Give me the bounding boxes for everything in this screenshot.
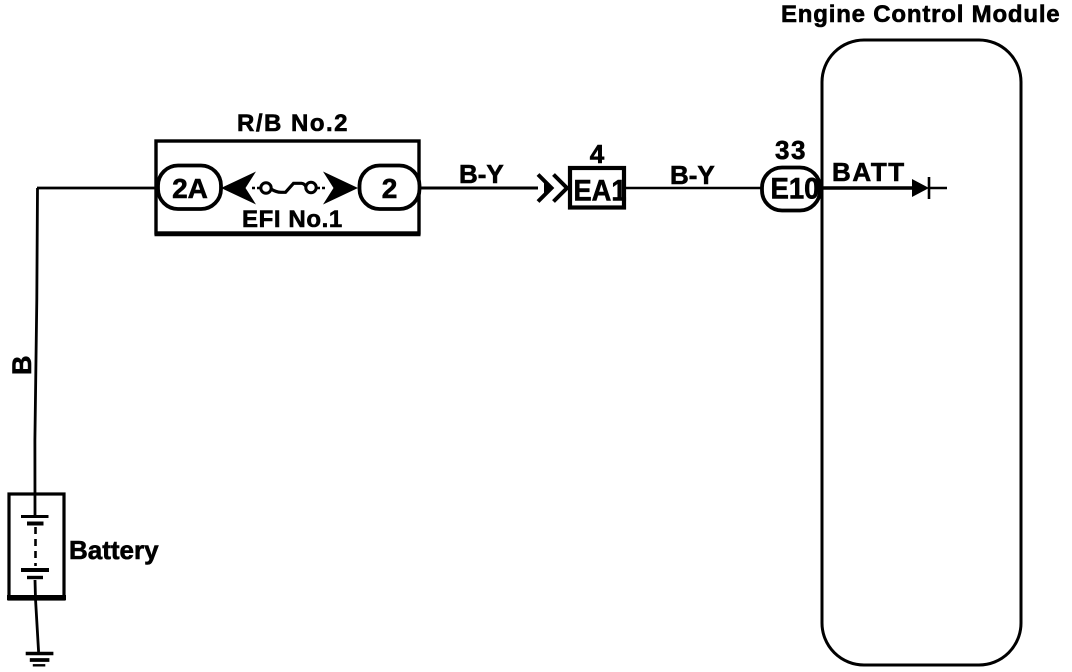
svg-text:B-Y: B-Y bbox=[670, 160, 715, 190]
fuse EFI No.1 : right terminal circle bbox=[306, 182, 316, 192]
connector pin 2A (stadium) bbox=[158, 166, 221, 210]
svg-text:EA1: EA1 bbox=[574, 175, 627, 208]
arrow tip tick bbox=[928, 177, 931, 199]
svg-text:Battery: Battery bbox=[69, 535, 159, 565]
battery plate short bottom bbox=[27, 576, 43, 579]
svg-text:4: 4 bbox=[590, 139, 605, 169]
wire stub after tick bbox=[929, 187, 947, 189]
wire: left horizontal from vertical riser to R/B box bbox=[37, 187, 156, 190]
wire: E10 into ECM (BATT) bbox=[820, 186, 915, 189]
connector pin E10 (stadium) bbox=[762, 168, 820, 211]
svg-text:B: B bbox=[7, 356, 37, 376]
fuse EFI No.1 : element S-wave bbox=[271, 183, 307, 192]
wire: R/B box to EA1 connector bbox=[419, 187, 538, 190]
fuse EFI No.1 : right arrowhead bbox=[323, 172, 358, 205]
battery plate long bottom bbox=[21, 568, 49, 572]
svg-text:B-Y: B-Y bbox=[459, 159, 504, 189]
battery plate long top bbox=[21, 515, 49, 518]
svg-text:Engine Control Module: Engine Control Module bbox=[781, 1, 1060, 28]
battery box bbox=[9, 494, 64, 599]
fuse EFI No.1 : left terminal circle bbox=[261, 183, 271, 193]
connector chevron 1 bbox=[538, 175, 552, 202]
connector chevron 2 bbox=[554, 175, 568, 202]
fuse EFI No.1 : left arrowhead bbox=[221, 172, 256, 205]
wire: battery negative to ground bbox=[35, 580, 39, 652]
connector pin 2 (stadium) bbox=[360, 166, 420, 210]
svg-text:BATT: BATT bbox=[832, 157, 906, 187]
battery internal dashed link bbox=[34, 527, 37, 566]
battery plate short top bbox=[27, 522, 44, 526]
svg-text:E10: E10 bbox=[771, 173, 820, 206]
connector EA1 box bbox=[570, 168, 624, 208]
junction/relay block R/B No.2 box bbox=[156, 141, 419, 233]
fuse EFI No.1 : dash right bbox=[317, 187, 327, 190]
ground symbol bbox=[26, 652, 54, 655]
wire: EA1 to E10 bbox=[626, 187, 762, 189]
fuse EFI No.1 : dash left bbox=[252, 187, 261, 190]
wire: left vertical riser (battery feed) bbox=[35, 188, 38, 517]
svg-text:2: 2 bbox=[382, 173, 398, 204]
svg-text:EFI No.1: EFI No.1 bbox=[242, 206, 343, 233]
ECM box U1 (Engine Control Module outline) bbox=[822, 40, 1021, 665]
svg-text:R/B No.2: R/B No.2 bbox=[237, 110, 349, 137]
svg-text:33: 33 bbox=[775, 135, 807, 165]
arrowhead into ECM bbox=[912, 179, 929, 197]
svg-text:2A: 2A bbox=[172, 173, 208, 204]
